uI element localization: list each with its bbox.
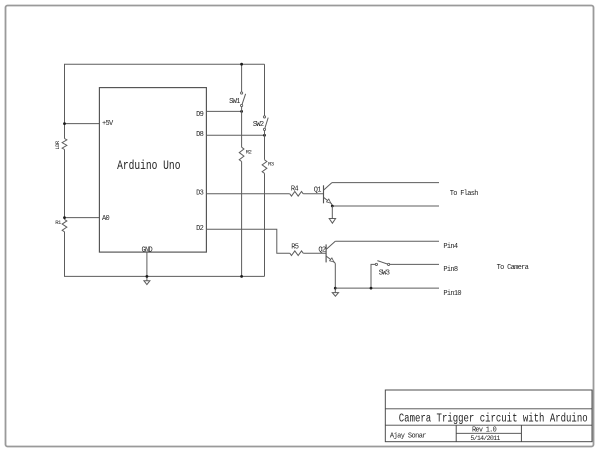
wire: R5 to Q2 base — [303, 252, 326, 254]
switch SW3 — [375, 263, 377, 265]
junction Q2 emitter / Pin10 rail — [334, 287, 337, 290]
svg-text:Ajay Sonar: Ajay Sonar — [390, 432, 426, 440]
junction D9/SW1/R2 — [240, 110, 243, 113]
svg-text:Q1: Q1 — [314, 187, 322, 195]
resistor R1 — [62, 219, 67, 231]
svg-text:LDR: LDR — [54, 140, 61, 150]
resistor R5 — [290, 251, 303, 256]
svg-text:R2: R2 — [246, 149, 252, 156]
resistor R3 — [262, 160, 267, 174]
wire: +5V pin to left rail — [65, 123, 100, 125]
svg-text:Camera Trigger circuit with Ar: Camera Trigger circuit with Arduino — [399, 412, 588, 426]
wire: SW3 left leg down to Pin10 rail — [371, 264, 375, 288]
svg-text:Pin4: Pin4 — [443, 243, 458, 251]
junction Q1 emitter — [331, 205, 334, 208]
ground symbol under Arduino — [144, 281, 150, 285]
svg-text:5/14/2011: 5/14/2011 — [470, 435, 500, 442]
transistor Q2 (NPN) — [325, 244, 327, 262]
svg-text:Q2: Q2 — [318, 247, 326, 255]
resistor R2 — [239, 147, 244, 161]
wire: top rail corner down to SW2 — [264, 64, 266, 116]
svg-text:Arduino Uno: Arduino Uno — [117, 160, 180, 174]
svg-text:SW2: SW2 — [253, 121, 264, 129]
svg-text:D3: D3 — [196, 190, 204, 198]
wire: R4 to Q1 base — [303, 193, 323, 195]
svg-text:SW1: SW1 — [229, 98, 240, 106]
Arduino Uno U1 body — [99, 88, 206, 253]
wire: A0 pin to divider node — [65, 217, 100, 219]
wire: D3 pin to R4 — [206, 193, 289, 195]
wire: Pin10 stub — [335, 287, 439, 289]
junction at +5V rail — [63, 122, 66, 125]
junction R2 bottom on ground rail — [240, 275, 243, 278]
svg-text:To Flash: To Flash — [450, 190, 479, 198]
switch SW1 — [241, 92, 243, 94]
svg-text:D9: D9 — [196, 111, 204, 119]
wire: SW2 to D8 node and down to R3 — [264, 131, 266, 277]
svg-text:A0: A0 — [102, 215, 110, 223]
svg-text:+5V: +5V — [102, 120, 114, 128]
wire: SW1 to D9 node and down to R2 — [241, 107, 243, 277]
wire: SW3 to Pin8 stub — [390, 263, 439, 265]
svg-text:D8: D8 — [196, 131, 204, 139]
svg-text:Pin10: Pin10 — [443, 290, 461, 298]
ground symbol under Q2 — [332, 293, 338, 297]
ground symbol under Q1 — [329, 219, 335, 224]
wire: Q2 collector to Pin4 stub — [335, 240, 439, 242]
wire: top rail drop to SW1 — [241, 64, 243, 92]
junction GND on rail — [146, 275, 149, 278]
switch SW2 — [263, 116, 265, 118]
wire: D8 pin to SW2 node — [206, 134, 264, 136]
svg-text:D2: D2 — [196, 225, 204, 233]
transistor Q1 (NPN) — [323, 185, 325, 203]
svg-text:R5: R5 — [291, 243, 299, 251]
junction D8/SW2/R3 — [263, 134, 266, 137]
junction SW3 leg / Pin10 rail — [370, 287, 373, 290]
photoresistor LDR — [62, 139, 67, 150]
wire: Q2 emitter down to Pin10 rail — [334, 263, 336, 292]
svg-text:R3: R3 — [268, 160, 274, 167]
wire: Q1 collector to flash stub — [332, 182, 439, 184]
svg-text:SW3: SW3 — [379, 270, 390, 278]
wire: Q1 emitter to flash stub — [332, 205, 439, 207]
junction top rail / SW1 branch — [240, 63, 243, 66]
wire: Q1 emitter to ground — [331, 206, 333, 218]
junction at A0 node — [63, 216, 66, 219]
wire: D9 pin to SW1 node — [206, 110, 241, 112]
svg-text:Rev 1.0: Rev 1.0 — [472, 427, 497, 435]
title block — [385, 390, 592, 442]
wire: +5V/GND loop rail (top rail, left vertical, bottom ground rail) — [65, 64, 265, 276]
svg-text:R4: R4 — [291, 185, 299, 193]
wire: D2 pin to R5 — [206, 229, 289, 253]
svg-text:Pin8: Pin8 — [443, 266, 458, 274]
svg-text:To Camera: To Camera — [497, 264, 529, 272]
wire: GND pin down to ground rail — [146, 252, 148, 281]
resistor R4 — [290, 192, 303, 197]
